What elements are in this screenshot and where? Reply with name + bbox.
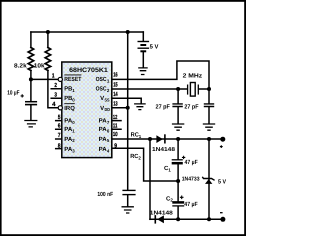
- svg-text:27 pF: 27 pF: [184, 103, 198, 110]
- svg-text:10k: 10k: [34, 62, 46, 69]
- svg-text:OSC: OSC: [96, 86, 108, 93]
- svg-text:2 MHz: 2 MHz: [183, 73, 203, 80]
- svg-text:1N4733: 1N4733: [182, 177, 200, 183]
- svg-text:DD: DD: [105, 107, 111, 112]
- svg-text:OSC: OSC: [96, 76, 108, 83]
- svg-text:12: 12: [113, 114, 118, 121]
- svg-text:5 V: 5 V: [218, 179, 226, 186]
- svg-text:RESET: RESET: [64, 76, 81, 83]
- svg-text:10 µF: 10 µF: [7, 90, 19, 97]
- svg-text:1N4148: 1N4148: [152, 147, 175, 153]
- svg-text:SS: SS: [105, 97, 110, 102]
- svg-text:47 µF: 47 µF: [184, 201, 198, 208]
- svg-text:5 V: 5 V: [150, 44, 159, 51]
- svg-text:15: 15: [113, 81, 118, 88]
- svg-text:13: 13: [113, 101, 118, 108]
- svg-text:47 µF: 47 µF: [185, 159, 198, 166]
- svg-text:8.2k: 8.2k: [14, 62, 27, 69]
- svg-text:10: 10: [113, 131, 118, 138]
- svg-text:100 nF: 100 nF: [97, 191, 113, 198]
- svg-text:14: 14: [113, 91, 118, 98]
- svg-text:1N4148: 1N4148: [150, 211, 173, 217]
- svg-text:11: 11: [113, 123, 118, 130]
- svg-text:16: 16: [113, 71, 118, 78]
- svg-text:68HC705K1: 68HC705K1: [69, 67, 108, 74]
- svg-text:27 pF: 27 pF: [156, 103, 171, 110]
- svg-text:IRQ: IRQ: [64, 105, 75, 112]
